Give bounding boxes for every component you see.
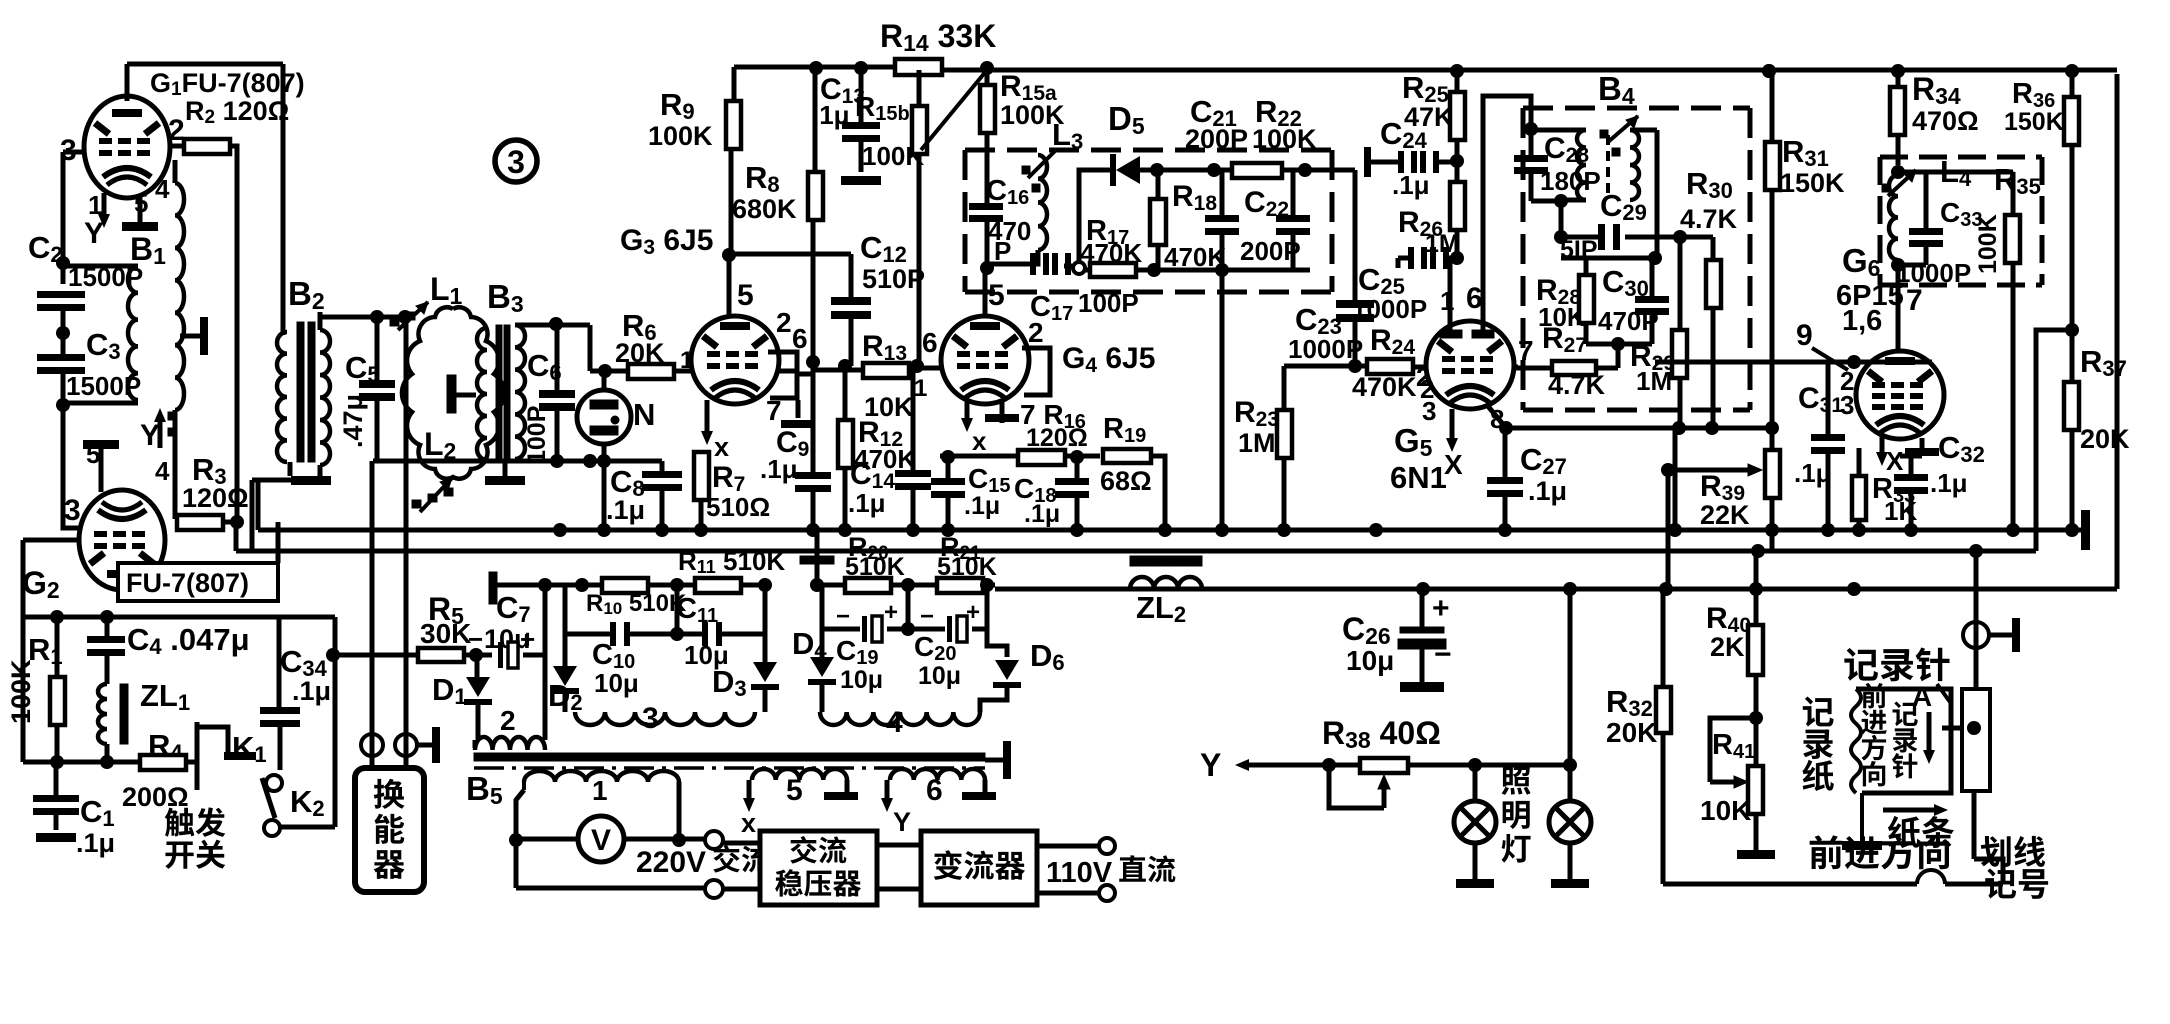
- svg-text:1M: 1M: [1238, 428, 1276, 458]
- svg-text:9: 9: [1796, 319, 1813, 352]
- svg-text:FU-7(807): FU-7(807): [126, 568, 249, 598]
- svg-text:10K: 10K: [1700, 795, 1751, 826]
- svg-text:.1μ: .1μ: [606, 495, 645, 525]
- svg-text:150K: 150K: [1780, 168, 1845, 198]
- svg-text:x: x: [714, 432, 729, 462]
- svg-text:+: +: [966, 599, 980, 626]
- svg-text:Y: Y: [140, 419, 160, 452]
- svg-text:X: X: [1444, 449, 1463, 480]
- svg-text:4: 4: [155, 174, 170, 204]
- svg-text:R2 120Ω: R2 120Ω: [185, 96, 289, 128]
- svg-text:6: 6: [922, 327, 938, 358]
- svg-text:2: 2: [500, 705, 516, 736]
- svg-text:510Ω: 510Ω: [706, 492, 770, 522]
- svg-text:10μ: 10μ: [840, 666, 883, 694]
- svg-text:G3 6J5: G3 6J5: [620, 224, 713, 259]
- svg-text:20K: 20K: [1606, 717, 1657, 748]
- svg-text:x: x: [741, 808, 756, 838]
- svg-text:2: 2: [1028, 317, 1044, 348]
- svg-text:5: 5: [86, 439, 100, 469]
- svg-text:Y: Y: [1200, 747, 1221, 783]
- svg-text:1: 1: [914, 375, 927, 402]
- svg-text:7: 7: [1906, 284, 1923, 317]
- svg-text:−: −: [920, 603, 934, 630]
- svg-text:10μ: 10μ: [1346, 645, 1394, 676]
- svg-text:3: 3: [1422, 396, 1436, 426]
- svg-text:220V: 220V: [636, 846, 706, 879]
- svg-text:6: 6: [792, 323, 808, 354]
- svg-text:200Ω: 200Ω: [122, 782, 189, 812]
- svg-text:100K: 100K: [1974, 214, 2002, 274]
- svg-text:100K: 100K: [648, 121, 713, 151]
- svg-text:470K: 470K: [1352, 372, 1417, 402]
- svg-text:.1μ: .1μ: [292, 676, 331, 706]
- svg-text:20K: 20K: [2080, 424, 2130, 454]
- svg-text:R14 33K: R14 33K: [880, 18, 996, 56]
- svg-text:G4 6J5: G4 6J5: [1062, 342, 1155, 377]
- svg-text:7: 7: [1518, 335, 1534, 366]
- svg-text:1: 1: [592, 775, 608, 806]
- svg-text:3: 3: [64, 494, 81, 527]
- svg-text:6: 6: [926, 774, 943, 807]
- svg-text:X: X: [1886, 446, 1904, 476]
- svg-text:1M: 1M: [1636, 366, 1672, 396]
- svg-text:R11 510K: R11 510K: [678, 546, 785, 577]
- svg-text:10μ: 10μ: [594, 668, 639, 698]
- svg-text:1,6: 1,6: [1842, 305, 1882, 337]
- svg-text:6N1: 6N1: [1390, 460, 1447, 495]
- svg-text:100P: 100P: [523, 406, 551, 464]
- svg-text:110V: 110V: [1046, 857, 1113, 889]
- svg-text:4: 4: [886, 706, 903, 739]
- svg-text:180P: 180P: [1540, 166, 1601, 196]
- svg-text:−: −: [836, 603, 850, 630]
- svg-text:.1μ: .1μ: [964, 492, 1000, 520]
- svg-text:C4 .047μ: C4 .047μ: [127, 622, 250, 659]
- svg-text:.1μ: .1μ: [1024, 500, 1060, 528]
- svg-text:10μ: 10μ: [918, 662, 961, 690]
- svg-text:100K: 100K: [1252, 124, 1317, 154]
- svg-text:510K: 510K: [937, 553, 997, 581]
- svg-text:680K: 680K: [732, 194, 797, 224]
- svg-text:120Ω: 120Ω: [182, 483, 249, 513]
- svg-text:3: 3: [642, 702, 659, 735]
- svg-text:68Ω: 68Ω: [1100, 466, 1152, 496]
- svg-text:1: 1: [88, 190, 102, 220]
- svg-text:5: 5: [988, 279, 1005, 312]
- svg-text:Y: Y: [893, 807, 911, 837]
- svg-text:.47μ: .47μ: [338, 394, 368, 448]
- svg-text:.1μ: .1μ: [1528, 476, 1567, 506]
- svg-text:2K: 2K: [1710, 632, 1745, 662]
- svg-text:+: +: [884, 599, 898, 626]
- svg-text:.1μ: .1μ: [760, 454, 798, 484]
- svg-text:200P: 200P: [1185, 124, 1248, 154]
- svg-text:1000P: 1000P: [1288, 334, 1363, 364]
- svg-text:2: 2: [776, 307, 792, 338]
- svg-text:100P: 100P: [1078, 288, 1139, 318]
- svg-text:510P: 510P: [862, 264, 925, 294]
- svg-text:7: 7: [766, 395, 782, 426]
- svg-text:.1μ: .1μ: [848, 488, 886, 518]
- svg-text:3: 3: [507, 144, 525, 180]
- svg-text:5: 5: [786, 774, 803, 807]
- svg-text:.1μ: .1μ: [1392, 170, 1430, 200]
- svg-text:1K: 1K: [1884, 496, 1917, 526]
- svg-text:−: −: [468, 624, 483, 654]
- svg-text:4.7K: 4.7K: [1680, 204, 1738, 234]
- svg-text:x: x: [972, 426, 987, 456]
- svg-text:.1μ: .1μ: [1930, 468, 1968, 498]
- svg-text:510K: 510K: [845, 553, 905, 581]
- svg-text:R38 40Ω: R38 40Ω: [1322, 715, 1441, 753]
- svg-text:150K: 150K: [2004, 108, 2064, 136]
- svg-text:1000P: 1000P: [1352, 294, 1427, 324]
- svg-text:5: 5: [737, 279, 754, 312]
- svg-text:R10 510K: R10 510K: [586, 590, 687, 618]
- svg-text:+: +: [520, 624, 535, 654]
- svg-text:470K: 470K: [1164, 242, 1226, 272]
- svg-text:V: V: [591, 824, 611, 857]
- svg-text:.1μ: .1μ: [76, 828, 115, 858]
- svg-text:4: 4: [155, 456, 170, 486]
- svg-text:30K: 30K: [420, 618, 471, 649]
- svg-text:22K: 22K: [1700, 500, 1750, 530]
- svg-text:N: N: [633, 397, 655, 432]
- svg-text:Y: Y: [84, 217, 104, 250]
- svg-text:470Ω: 470Ω: [1912, 106, 1979, 136]
- svg-text:A: A: [1912, 681, 1932, 712]
- svg-text:6: 6: [1466, 282, 1483, 315]
- svg-text:+: +: [1432, 592, 1450, 625]
